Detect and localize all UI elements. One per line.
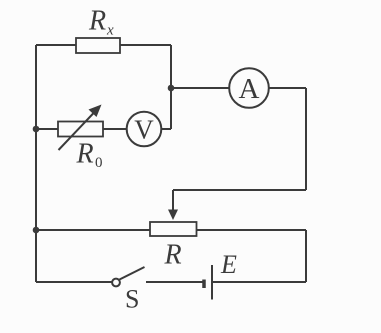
svg-text:0: 0 bbox=[95, 155, 103, 171]
wire: ammeter branch from node to right bbox=[171, 87, 306, 89]
battery E positive plate (long thin) bbox=[211, 265, 213, 300]
svg-text:V: V bbox=[134, 115, 154, 145]
battery E negative plate (short thick) bbox=[202, 280, 206, 289]
rheostat R body bbox=[150, 222, 197, 236]
wire: right vertical down from ammeter bbox=[305, 88, 307, 190]
wire: horizontal jog to rheostat wiper bbox=[173, 189, 306, 191]
voltmeter V bbox=[127, 112, 162, 147]
svg-text:x: x bbox=[106, 23, 114, 39]
wire: top horizontal (Rx branch) bbox=[36, 44, 171, 46]
wire: wiper vertical into arrow bbox=[172, 190, 174, 211]
wire: bottom right (battery to right corner) bbox=[212, 281, 306, 283]
svg-text:A: A bbox=[239, 73, 260, 105]
ammeter A bbox=[229, 68, 269, 108]
svg-text:R: R bbox=[164, 240, 182, 271]
svg-text:E: E bbox=[220, 250, 237, 279]
wire: bottom left (left bus to switch) bbox=[36, 281, 112, 283]
switch S blade bbox=[120, 267, 145, 280]
node: junction dot left on V branch bbox=[33, 126, 40, 133]
wire: V branch horizontal bbox=[36, 128, 171, 130]
svg-text:R: R bbox=[88, 6, 106, 37]
rheostat R wiper arrowhead bbox=[168, 210, 178, 221]
resistor Rx body bbox=[76, 38, 120, 53]
switch S pivot bbox=[112, 279, 120, 287]
wire: lower right vertical bbox=[305, 230, 307, 282]
resistor R0 body (variable) bbox=[58, 122, 103, 137]
wire: left vertical bus bbox=[35, 45, 37, 282]
wire: right vertical between Rx branch and V branch bbox=[170, 45, 172, 129]
node: junction dot at ammeter tap bbox=[168, 85, 175, 92]
svg-text:R: R bbox=[76, 138, 94, 169]
wire: rheostat horizontal bbox=[36, 229, 306, 231]
svg-text:S: S bbox=[125, 285, 139, 314]
arrow across R0 bbox=[59, 105, 102, 151]
node: junction dot left on rheostat branch bbox=[33, 227, 40, 234]
wire: bottom middle (switch to battery) bbox=[146, 281, 204, 283]
